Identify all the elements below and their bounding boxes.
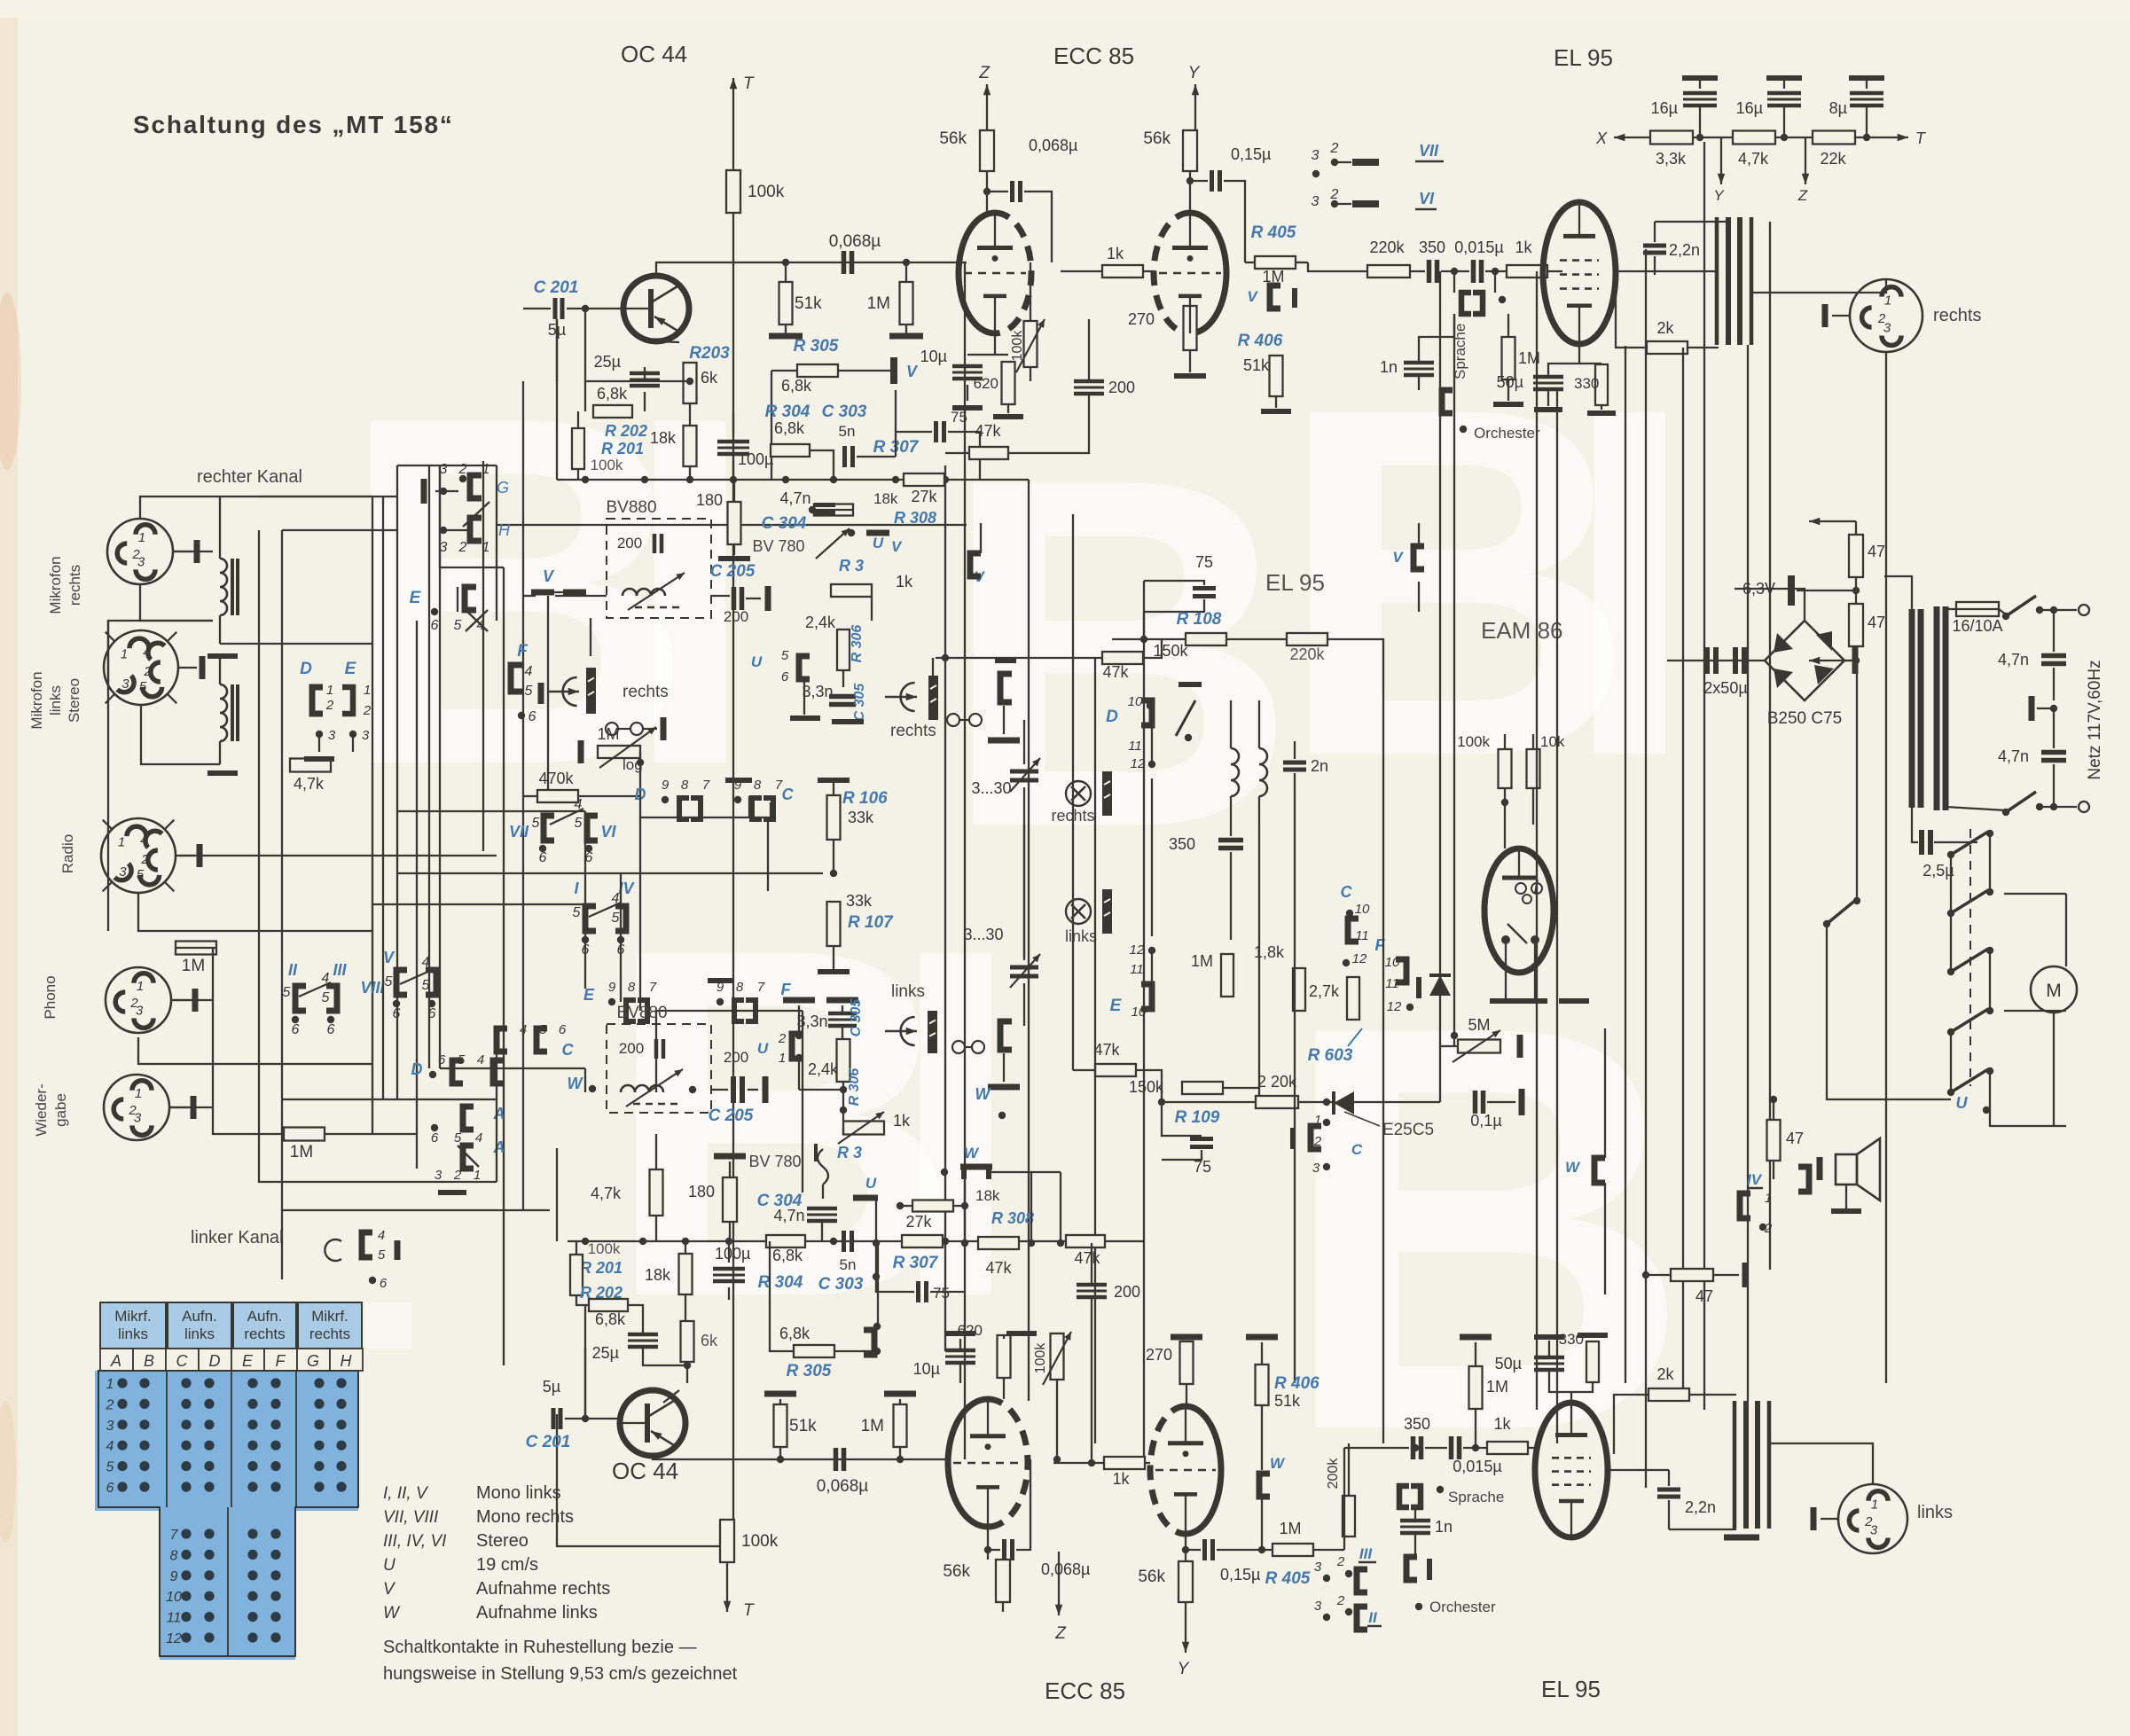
svg-text:1M: 1M: [1279, 1520, 1301, 1537]
svg-text:A: A: [493, 1105, 505, 1122]
svg-text:Orchester: Orchester: [1429, 1599, 1496, 1615]
svg-text:2: 2: [106, 1397, 114, 1412]
wire: [1505, 944, 1507, 1001]
svg-text:V: V: [383, 949, 395, 966]
capacitor 4,7n mains bottom: [1998, 747, 2066, 765]
svg-text:1k: 1k: [1515, 239, 1532, 256]
wire: [785, 325, 787, 333]
svg-text:8: 8: [628, 980, 636, 995]
svg-text:R 603: R 603: [1308, 1046, 1353, 1065]
junction: [686, 476, 693, 483]
wire: [1950, 1032, 1952, 1092]
svg-text:2,2n: 2,2n: [1685, 1498, 1716, 1516]
wire: [1682, 348, 1684, 1388]
wire: [1060, 1172, 1061, 1243]
junction: [682, 1238, 689, 1245]
junction: [1642, 1271, 1649, 1279]
legend roman numerals: [383, 1483, 610, 1623]
svg-text:2: 2: [1336, 1554, 1345, 1569]
wire: [1223, 1088, 1259, 1102]
wire: [655, 1134, 657, 1169]
wire: [141, 705, 220, 764]
svg-text:47: 47: [1786, 1130, 1804, 1147]
wire: [1507, 314, 1509, 337]
switch bracket Orchester bottom: [1406, 1557, 1496, 1615]
connector Phono: [106, 967, 195, 1033]
switch blade speed bank 2: [1947, 888, 1993, 917]
svg-text:2,7k: 2,7k: [1309, 982, 1340, 1000]
wire: [1592, 1341, 1594, 1341]
svg-text:100k: 100k: [1457, 733, 1490, 750]
junction: [686, 378, 693, 385]
wire: [212, 1000, 214, 1107]
wire: [1002, 1602, 1004, 1612]
junction: [961, 1202, 968, 1209]
svg-text:16µ: 16µ: [1651, 99, 1678, 117]
wire: [496, 1052, 497, 1182]
transformer input right channel: [208, 530, 238, 656]
svg-text:51k: 51k: [795, 294, 822, 313]
wire: [1418, 582, 1420, 612]
wire: [948, 432, 980, 480]
wire: [1056, 1380, 1058, 1459]
svg-text:200k: 200k: [1326, 1458, 1341, 1490]
svg-text:1: 1: [779, 1051, 786, 1066]
wire: [640, 796, 768, 817]
svg-text:rechts: rechts: [623, 683, 669, 701]
svg-text:3: 3: [1312, 148, 1320, 163]
svg-text:Netz 117V,60Hz: Netz 117V,60Hz: [2086, 660, 2104, 779]
svg-text:II: II: [1368, 1609, 1378, 1626]
svg-text:D: D: [209, 1352, 221, 1370]
svg-text:C 205: C 205: [710, 562, 756, 581]
svg-text:Y: Y: [1188, 64, 1201, 82]
resistor 6k bottom: [681, 1321, 719, 1362]
svg-text:1: 1: [137, 979, 144, 994]
resistor 270 top: [1128, 306, 1197, 350]
svg-text:VII: VII: [1419, 142, 1439, 160]
wire: [655, 1011, 657, 1092]
svg-text:270: 270: [1128, 310, 1155, 328]
svg-text:U: U: [751, 653, 763, 670]
electrolytic 25µ top: [594, 353, 660, 386]
wire: [1162, 1101, 1256, 1103]
svg-text:Phono: Phono: [42, 975, 59, 1019]
svg-text:2: 2: [1313, 1134, 1322, 1149]
wire: [798, 1058, 800, 1090]
svg-text:M: M: [2046, 981, 2062, 1001]
wire: [584, 309, 586, 381]
capacitor C205 200 top: [710, 562, 768, 625]
jack contacts mid right: [947, 714, 982, 726]
label 6,3V + terminal: [1742, 575, 1860, 606]
svg-text:R 202: R 202: [605, 422, 647, 440]
resistor 2k top: [1647, 319, 1688, 354]
svg-text:V: V: [1247, 288, 1258, 305]
resistor 4,7k (bottom input): [591, 1169, 663, 1216]
wire: [1258, 825, 1260, 1088]
svg-text:1: 1: [135, 1086, 142, 1101]
junction: [1182, 1546, 1189, 1553]
junction: [1140, 636, 1147, 643]
wire: [1382, 665, 1384, 1443]
grounds under 50µ/330 top: [1534, 407, 1562, 412]
wire: [567, 308, 623, 309]
wire: [556, 319, 558, 381]
wire: [1475, 1342, 1476, 1366]
speed switch bank with dashed shaft: [1969, 829, 1971, 1086]
svg-text:C 303: C 303: [818, 1275, 864, 1294]
wire: [1414, 1507, 1416, 1521]
svg-text:rechts: rechts: [890, 722, 936, 740]
wire: [1143, 270, 1155, 272]
wire: [1217, 1549, 1233, 1551]
wire: [842, 1082, 844, 1121]
svg-text:5M: 5M: [1468, 1016, 1490, 1034]
wire: [945, 452, 969, 454]
wire: [1856, 661, 1858, 899]
svg-text:4: 4: [520, 1022, 527, 1037]
wire: [397, 465, 497, 466]
wire: [1655, 221, 1729, 223]
tube ECC85 triode 2: [1154, 213, 1226, 333]
svg-text:W: W: [1565, 1159, 1581, 1176]
resistor R406 51k top: [1238, 332, 1283, 396]
svg-text:C: C: [782, 786, 795, 803]
electrolytic 100µ bottom: [713, 1245, 750, 1281]
wire: [1556, 390, 1558, 1443]
svg-text:C: C: [176, 1352, 189, 1370]
resistor R106 33k: [818, 780, 888, 840]
svg-text:7: 7: [702, 778, 710, 793]
switch VII VI contacts: [509, 797, 617, 865]
wire: [1088, 319, 1090, 379]
wire: [2004, 1010, 2066, 1012]
svg-text:C: C: [1341, 883, 1353, 901]
capacitor C304 4,7n bottom: [757, 1192, 837, 1224]
capacitor 4,7n mains top: [1998, 651, 2066, 669]
svg-text:W: W: [383, 1604, 401, 1623]
svg-text:4: 4: [477, 1052, 484, 1067]
capacitor 200 (interstage) bottom: [1077, 1283, 1140, 1301]
svg-text:5: 5: [283, 985, 291, 1000]
wire: [2053, 668, 2055, 700]
svg-text:100k: 100k: [588, 1240, 621, 1257]
wire: [220, 643, 372, 645]
connector rechts output: [1825, 279, 1981, 352]
wire: [1504, 788, 1506, 848]
svg-text:16µ: 16µ: [1736, 99, 1763, 117]
wire: [523, 308, 551, 309]
wire: [397, 810, 585, 812]
resistor 180 bottom: [688, 1177, 737, 1222]
capacitor C305 3,3n top: [802, 683, 867, 722]
resistor 4,7k rail: [1733, 131, 1775, 168]
resistor 2,7k mid: [1309, 977, 1359, 1020]
resistor 1M (Sprache) top: [1502, 337, 1541, 379]
junction: [730, 476, 737, 483]
resistor 6,8k top: [593, 385, 632, 418]
svg-text:1k: 1k: [1107, 245, 1124, 262]
wire: [1667, 660, 1703, 661]
svg-text:350: 350: [1169, 835, 1195, 853]
svg-text:EL 95: EL 95: [1554, 44, 1613, 71]
junction: [1158, 1099, 1165, 1106]
svg-text:W: W: [964, 1145, 980, 1161]
svg-text:R 201: R 201: [580, 1259, 623, 1277]
resistor 22k rail: [1813, 131, 1855, 168]
grounds under EAM86: [1490, 998, 1589, 1004]
junction: [942, 654, 949, 661]
capacitor 4,7n top: [779, 489, 835, 513]
resistor R107 33k: [818, 892, 894, 972]
svg-text:Z: Z: [978, 64, 991, 82]
wire: [980, 523, 982, 553]
wire: [1230, 796, 1232, 836]
wire: [1031, 1171, 1061, 1173]
svg-text:3...30: 3...30: [971, 779, 1011, 797]
resistor 1k (output) top: [1507, 239, 1547, 278]
wire: [1912, 833, 1918, 842]
svg-text:III: III: [333, 961, 347, 979]
svg-text:1M: 1M: [1191, 952, 1213, 970]
capacitor 0,15µ bottom: [1205, 1539, 1261, 1584]
wire: [932, 658, 934, 676]
jack contacts (head) top: [606, 717, 663, 740]
wire: [1608, 1469, 1669, 1471]
svg-text:350: 350: [1419, 239, 1445, 256]
svg-text:75: 75: [1195, 553, 1213, 571]
svg-text:5: 5: [612, 911, 620, 926]
resistor 6,8k bottom pair: [589, 1299, 628, 1328]
wire: [964, 1179, 966, 1243]
svg-text:56k: 56k: [1143, 129, 1171, 148]
wire: [1233, 1549, 1273, 1551]
svg-text:22k: 22k: [1820, 150, 1846, 168]
wire: [812, 509, 853, 511]
junction: [873, 1239, 880, 1247]
svg-text:I, II, V: I, II, V: [383, 1484, 429, 1503]
switch U contact 2 1 bottom: [757, 1031, 803, 1066]
wire: [1669, 1529, 1736, 1530]
svg-text:5: 5: [575, 816, 583, 831]
wire: [1703, 142, 1705, 1410]
play head rechts top: [547, 668, 669, 714]
junction: [830, 1238, 837, 1245]
wire: [1713, 1274, 1739, 1276]
svg-text:OC 44: OC 44: [621, 41, 687, 67]
svg-text:R 308: R 308: [894, 509, 936, 527]
svg-text:C 304: C 304: [762, 514, 807, 533]
wire: [440, 1067, 585, 1069]
resistor 620 bottom: [958, 1322, 1011, 1378]
svg-text:100k: 100k: [741, 1532, 779, 1551]
svg-text:links: links: [47, 685, 64, 716]
resistor 47 upper: [1849, 535, 1885, 577]
switch I IV contacts: [573, 880, 636, 958]
svg-text:1k: 1k: [893, 1112, 911, 1130]
svg-text:U: U: [757, 1040, 769, 1057]
wire: [1414, 1533, 1416, 1557]
svg-text:8µ: 8µ: [1829, 99, 1847, 117]
resistor R405 1M top: [1251, 223, 1296, 285]
svg-text:10µ: 10µ: [913, 1360, 940, 1378]
wire: [1769, 222, 1771, 1270]
oscillator coil 2: [1259, 748, 1267, 796]
svg-text:4: 4: [106, 1439, 114, 1454]
resistor 220k mid: [1287, 633, 1327, 663]
svg-text:III: III: [1359, 1545, 1373, 1562]
wire: [1190, 180, 1208, 182]
resistor 1M top: [867, 282, 913, 325]
wire: [936, 657, 1102, 659]
svg-text:200: 200: [724, 608, 748, 625]
switch G contacts 3 2 1: [424, 462, 509, 504]
capacitor C303 5n bottom: [818, 1231, 864, 1294]
wire: [1934, 841, 1977, 843]
wire: [689, 466, 691, 480]
wire: [1504, 734, 1506, 749]
junction: [961, 1239, 968, 1247]
junction: [1028, 1239, 1035, 1247]
junction: [2050, 803, 2057, 810]
svg-text:10k: 10k: [1540, 733, 1565, 750]
wire: [930, 1291, 965, 1293]
wire: [1144, 599, 1204, 612]
wire: [482, 461, 484, 621]
svg-text:5n: 5n: [839, 423, 856, 440]
junction: [1492, 268, 1499, 275]
svg-text:4: 4: [140, 833, 147, 848]
svg-text:12: 12: [1352, 951, 1367, 966]
wire: [1112, 638, 1186, 640]
svg-text:EAM 86: EAM 86: [1481, 617, 1563, 644]
wire: [620, 873, 622, 1002]
svg-text:200: 200: [1114, 1283, 1140, 1301]
transistor OC44 top: [623, 276, 689, 341]
paper speckle: [0, 0, 18, 1736]
wire: [1143, 581, 1145, 644]
wire: [503, 567, 505, 1365]
wire: [1579, 363, 1601, 364]
resistor R304 6,8k top: [765, 403, 810, 457]
svg-text:12: 12: [166, 1631, 182, 1646]
svg-text:1M: 1M: [182, 957, 205, 975]
svg-text:3: 3: [1312, 1161, 1320, 1176]
svg-text:H: H: [341, 1352, 353, 1370]
svg-text:2: 2: [325, 698, 334, 713]
wire: [838, 370, 890, 371]
wire: [556, 1148, 558, 1241]
svg-text:6: 6: [327, 1022, 335, 1037]
resistor 51k top: [779, 282, 823, 325]
switch U contact bottom right: [853, 1175, 878, 1198]
wire: [1950, 858, 1952, 972]
wire: [905, 325, 907, 333]
wire: [1189, 306, 1191, 333]
svg-text:3: 3: [435, 1168, 442, 1183]
electrolytic 25µ bottom: [592, 1334, 658, 1362]
svg-text:27k: 27k: [911, 488, 937, 505]
svg-text:1n: 1n: [1380, 358, 1398, 376]
svg-text:R203: R203: [689, 344, 730, 363]
wire: [1136, 1070, 1162, 1088]
wire: [2040, 806, 2077, 808]
wire: [1261, 1405, 1263, 1470]
coupling squiggle BV780 bottom: [816, 1144, 828, 1185]
wire: [2065, 894, 2067, 966]
label R603: [1308, 1028, 1362, 1065]
switch V contact R308 top: [848, 529, 903, 555]
wire: [1532, 788, 1534, 825]
wire: [1410, 270, 1425, 272]
speaker: [1820, 1138, 1880, 1211]
svg-text:E: E: [242, 1352, 254, 1370]
terminal mains top: [2079, 605, 2089, 615]
svg-text:2: 2: [140, 852, 149, 867]
potentiometer 100k (volume) top: [1010, 319, 1045, 372]
wire: [1023, 720, 1025, 764]
wire: [1023, 787, 1025, 958]
wire: [987, 1550, 989, 1560]
motor M: [2031, 966, 2077, 1013]
junction: [903, 259, 910, 266]
tube ECC85 triode 1: [959, 213, 1031, 333]
bridge rectifier B250 C75: [1765, 621, 1855, 728]
switch VII VI contacts top right: [1312, 141, 1444, 209]
wire: [584, 1305, 586, 1348]
svg-text:9: 9: [662, 778, 670, 793]
wire: [1507, 379, 1509, 401]
resistor R305 6,8k bottom: [779, 1325, 834, 1380]
wire: [785, 262, 787, 282]
junction: [830, 870, 837, 877]
svg-text:10µ: 10µ: [920, 348, 947, 365]
resistor 100k mid: [1457, 733, 1511, 788]
svg-text:200: 200: [1108, 379, 1135, 396]
svg-text:3: 3: [119, 864, 127, 880]
svg-text:rechts: rechts: [67, 565, 83, 606]
switch table blue background upper: [95, 1371, 358, 1660]
resistor 47k mid-low: [1093, 1041, 1136, 1076]
switch C D W contacts bottom: [411, 1022, 597, 1092]
play head links mid: [885, 982, 937, 1053]
junction: [1053, 1456, 1061, 1463]
wire: [1668, 1470, 1670, 1486]
wire: [1494, 271, 1496, 293]
svg-text:1: 1: [482, 540, 490, 555]
svg-text:Orchester: Orchester: [1474, 425, 1540, 442]
resistor 150k low: [1129, 1078, 1223, 1096]
switch blade speed bank 3: [1947, 947, 1993, 975]
svg-text:R 304: R 304: [758, 1273, 803, 1292]
wire: [1230, 852, 1232, 940]
junction: [892, 476, 899, 483]
svg-text:R 107: R 107: [848, 913, 894, 932]
wire: [416, 621, 418, 1099]
svg-text:18k: 18k: [645, 1266, 671, 1284]
svg-text:OC 44: OC 44: [612, 1458, 678, 1484]
connector Mikrofon links Stereo: [104, 630, 202, 705]
svg-text:1: 1: [106, 1377, 114, 1392]
resistor 180 top: [696, 491, 741, 544]
resistor 200k bottom: [1326, 1458, 1355, 1537]
junction: [1852, 657, 1860, 664]
svg-text:Aufnahme rechts: Aufnahme rechts: [476, 1579, 610, 1599]
wire: [732, 460, 734, 480]
capacitor 2n mid: [1283, 757, 1328, 775]
wire: [440, 567, 504, 568]
